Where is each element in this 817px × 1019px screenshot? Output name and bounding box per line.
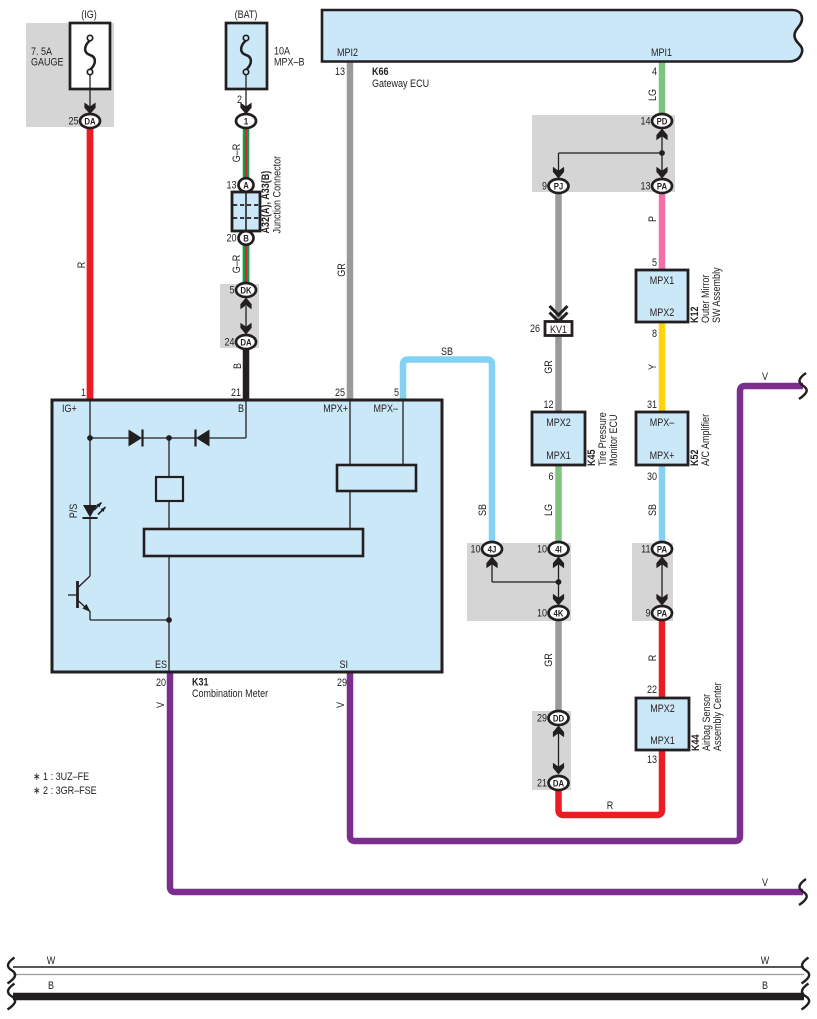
svg-text:MPX2: MPX2 <box>650 703 675 715</box>
svg-text:4: 4 <box>652 66 657 78</box>
svg-text:9: 9 <box>542 181 547 193</box>
svg-text:PD: PD <box>657 116 668 127</box>
svg-text:SI: SI <box>339 659 348 671</box>
svg-text:20: 20 <box>156 677 166 689</box>
svg-text:ES: ES <box>155 659 167 671</box>
svg-text:GR: GR <box>543 360 555 374</box>
svg-text:20: 20 <box>226 233 236 245</box>
svg-text:∗ 1 : 3UZ–FE: ∗ 1 : 3UZ–FE <box>33 771 89 783</box>
svg-text:1: 1 <box>244 116 248 127</box>
svg-text:DK: DK <box>240 285 252 296</box>
svg-text:8: 8 <box>652 328 657 340</box>
svg-text:SB: SB <box>477 504 489 516</box>
svg-text:GR: GR <box>543 653 555 667</box>
svg-text:1: 1 <box>81 387 86 399</box>
svg-text:∗ 2 : 3GR–FSE: ∗ 2 : 3GR–FSE <box>33 785 97 797</box>
svg-text:P: P <box>647 216 659 222</box>
svg-text:21: 21 <box>231 387 241 399</box>
svg-text:29: 29 <box>537 713 547 725</box>
svg-text:MPI2: MPI2 <box>337 47 358 59</box>
svg-text:Assembly Center: Assembly Center <box>712 682 724 751</box>
svg-text:W: W <box>47 955 56 967</box>
svg-text:4I: 4I <box>555 544 561 555</box>
svg-text:SB: SB <box>441 346 453 358</box>
svg-text:13: 13 <box>640 181 650 193</box>
svg-text:13: 13 <box>335 66 345 78</box>
svg-text:MPX2: MPX2 <box>546 417 571 429</box>
svg-text:(BAT): (BAT) <box>235 9 258 21</box>
svg-text:5: 5 <box>394 387 399 399</box>
svg-text:9: 9 <box>645 608 650 620</box>
svg-text:G–R: G–R <box>231 144 243 163</box>
svg-text:Combination Meter: Combination Meter <box>192 688 269 700</box>
svg-text:MPX1: MPX1 <box>650 275 675 287</box>
svg-text:K31: K31 <box>192 677 209 689</box>
svg-text:25: 25 <box>68 116 78 128</box>
svg-text:MPX2: MPX2 <box>650 307 675 319</box>
svg-text:25: 25 <box>335 387 345 399</box>
svg-text:12: 12 <box>543 399 553 411</box>
svg-text:B: B <box>762 980 768 992</box>
svg-text:MPX–: MPX– <box>650 417 675 429</box>
svg-text:V: V <box>155 702 167 708</box>
svg-text:P/S: P/S <box>68 503 80 518</box>
svg-text:V: V <box>762 877 768 889</box>
svg-text:R: R <box>607 800 614 812</box>
svg-text:MPX+: MPX+ <box>650 450 675 462</box>
svg-text:A32(A), A33(B): A32(A), A33(B) <box>260 171 272 234</box>
svg-text:13: 13 <box>226 180 236 192</box>
svg-text:4K: 4K <box>554 608 565 619</box>
svg-text:B: B <box>238 403 244 415</box>
svg-text:A/C Amplifier: A/C Amplifier <box>700 413 712 466</box>
svg-text:PA: PA <box>657 608 668 619</box>
svg-text:V: V <box>762 371 768 383</box>
svg-text:26: 26 <box>530 323 540 335</box>
svg-text:IG+: IG+ <box>62 403 77 415</box>
svg-text:Gateway ECU: Gateway ECU <box>372 78 429 90</box>
svg-text:Y: Y <box>647 364 659 370</box>
svg-text:PA: PA <box>657 544 668 555</box>
svg-text:A: A <box>243 180 249 191</box>
svg-text:DA: DA <box>240 337 252 348</box>
svg-text:4J: 4J <box>488 544 497 555</box>
svg-text:DA: DA <box>84 116 96 127</box>
svg-text:MPX1: MPX1 <box>650 735 675 747</box>
svg-text:14: 14 <box>640 116 650 128</box>
svg-text:10: 10 <box>537 608 547 620</box>
svg-text:MPI1: MPI1 <box>651 47 672 59</box>
svg-text:(IG): (IG) <box>81 9 97 21</box>
svg-text:R: R <box>647 655 659 662</box>
svg-text:DD: DD <box>553 713 564 724</box>
svg-text:10: 10 <box>470 544 480 556</box>
svg-text:10: 10 <box>537 544 547 556</box>
svg-text:MPX1: MPX1 <box>546 450 571 462</box>
svg-text:B: B <box>243 233 249 244</box>
svg-text:30: 30 <box>647 471 657 483</box>
svg-text:5: 5 <box>652 257 657 269</box>
svg-text:GAUGE: GAUGE <box>31 57 64 69</box>
svg-text:29: 29 <box>337 677 347 689</box>
svg-text:K66: K66 <box>372 66 389 78</box>
svg-text:B: B <box>48 980 54 992</box>
svg-text:5: 5 <box>229 285 234 297</box>
svg-text:13: 13 <box>647 754 657 766</box>
svg-text:PA: PA <box>657 181 668 192</box>
svg-text:V: V <box>335 702 347 708</box>
svg-text:SW Assembly: SW Assembly <box>711 267 723 323</box>
svg-text:DA: DA <box>553 778 565 789</box>
svg-text:KV1: KV1 <box>550 324 567 336</box>
svg-text:Junction Connector: Junction Connector <box>272 155 284 233</box>
svg-text:SB: SB <box>647 504 659 516</box>
svg-text:21: 21 <box>537 778 547 790</box>
svg-text:Monitor ECU: Monitor ECU <box>608 414 620 466</box>
svg-text:LG: LG <box>543 504 555 516</box>
svg-text:24: 24 <box>224 337 234 349</box>
svg-text:31: 31 <box>647 399 657 411</box>
svg-text:MPX+: MPX+ <box>323 403 348 415</box>
svg-text:G–R: G–R <box>231 255 243 274</box>
svg-text:R: R <box>76 262 88 269</box>
svg-text:22: 22 <box>647 684 657 696</box>
svg-text:B: B <box>232 363 244 369</box>
svg-text:W: W <box>761 955 770 967</box>
svg-text:MPX–B: MPX–B <box>274 57 305 69</box>
svg-text:6: 6 <box>548 471 553 483</box>
svg-text:11: 11 <box>641 544 651 556</box>
svg-text:PJ: PJ <box>554 181 564 192</box>
svg-text:MPX–: MPX– <box>373 403 398 415</box>
svg-text:GR: GR <box>336 263 348 277</box>
svg-text:LG: LG <box>647 89 659 101</box>
